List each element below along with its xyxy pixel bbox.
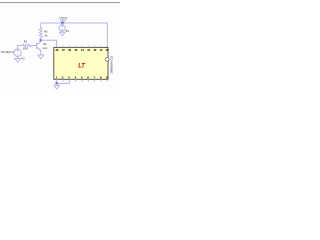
wire collector to U1 pin	[41, 40, 57, 47]
U1 bottom pin numbers	[56, 76, 108, 80]
resistor R1	[23, 44, 32, 47]
wire V2 bottom stub	[17, 57, 19, 59]
U1 right edge bubble	[105, 57, 109, 61]
svg-text:VDD: VDD	[59, 17, 68, 21]
svg-text:10k: 10k	[23, 47, 28, 51]
Q1 emitter arrow	[39, 48, 41, 50]
wire R1 to Q1 base	[31, 45, 36, 47]
node collector junction dot	[40, 39, 42, 41]
node rail junction dot	[61, 22, 63, 24]
voltage source V1	[61, 23, 63, 25]
toolbar edge line	[0, 2, 120, 3]
svg-text:R1: R1	[24, 39, 28, 43]
VDD power flag	[60, 21, 66, 23]
svg-text:PULSE(0 5): PULSE(0 5)	[1, 50, 14, 54]
U1 top pin ticks	[63, 46, 101, 48]
node gnd junction dot	[56, 82, 58, 84]
transistor Q1	[37, 40, 41, 55]
resistor Rc vertical	[39, 23, 42, 40]
ground under V1	[60, 32, 66, 36]
wire U1 gnd pins	[57, 79, 70, 83]
svg-text:5V: 5V	[66, 29, 70, 33]
U1 top pin numbers	[55, 48, 109, 52]
wire VDD rail	[41, 22, 108, 24]
wire rail right drop to U1	[106, 23, 108, 47]
wire V2 top to R1	[18, 46, 23, 50]
svg-text:CD4060BE: CD4060BE	[109, 56, 113, 74]
background	[0, 0, 120, 94]
svg-text:npn: npn	[43, 46, 48, 50]
ground under V2	[15, 59, 21, 63]
voltage source V2	[14, 49, 21, 56]
U1 bottom pin ticks	[63, 79, 107, 81]
ground under U1	[54, 83, 60, 89]
ground under Q1 emitter	[38, 55, 44, 59]
svg-text:V2: V2	[21, 57, 25, 61]
op IC U1 body	[54, 47, 108, 79]
